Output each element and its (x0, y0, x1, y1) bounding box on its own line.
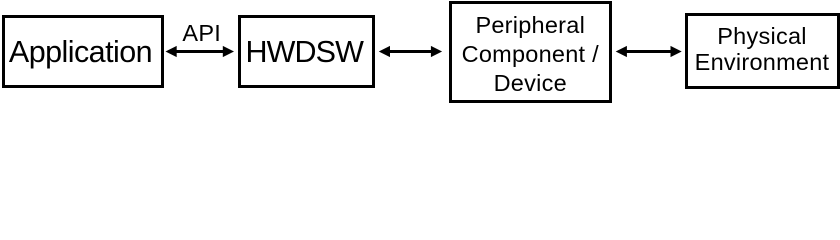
double arrow 1: Application to HWDSW (166, 46, 235, 57)
arrows (0, 0, 840, 105)
double arrow 2: HWDSW to Peripheral (379, 46, 442, 57)
label HWDSW (236, 36, 374, 69)
box Application (2, 15, 164, 88)
box Peripheral Component / Device (449, 1, 613, 103)
box Physical Environment (685, 13, 840, 89)
label Physical Environment (685, 23, 840, 76)
box HWDSW (238, 15, 376, 88)
double arrow 3: Peripheral to Physical Environment (616, 46, 682, 57)
label API (165, 22, 239, 46)
label Peripheral Component / Device (449, 11, 613, 98)
label Application (0, 36, 161, 69)
